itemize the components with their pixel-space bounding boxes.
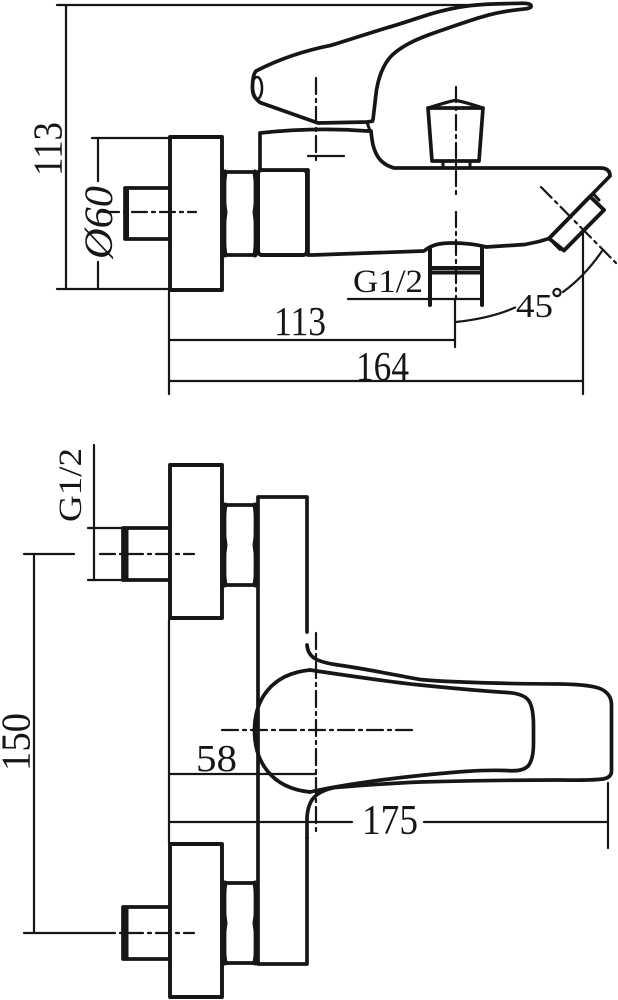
extension line fitting bottom center [24, 932, 100, 934]
leader line G1/2 (front view) [93, 445, 95, 580]
hex nut (top view) [223, 172, 257, 255]
wall flange escutcheon (top view) [170, 137, 222, 290]
handle silhouette (front view) [307, 645, 612, 838]
extension line fitting top center [24, 553, 74, 555]
centerline nipple (top view) [104, 211, 196, 213]
handle lever (top view) [253, 3, 532, 123]
svg-text:175: 175 [362, 798, 418, 844]
handle top surface contour (front view) [255, 670, 311, 792]
dim line 113 horizontal [170, 339, 454, 341]
shower fitting centerline [455, 212, 457, 299]
extension line handle end (front view) [607, 783, 609, 848]
faucet body bar (front view) [258, 497, 307, 964]
dim line 164 [170, 380, 582, 382]
handle pivot cap [252, 77, 262, 99]
nozzle ring notches [554, 194, 599, 250]
extension line flange top for dia60 [92, 137, 168, 139]
cap step under handle [367, 122, 370, 131]
svg-text:58: 58 [196, 738, 237, 780]
eccentric connector (top view) [258, 170, 307, 255]
cartridge axis tick [308, 155, 344, 157]
svg-text:113: 113 [274, 298, 326, 344]
dim line 58 [170, 773, 316, 775]
diverter knob neck [443, 161, 470, 168]
faucet body with spout (top view) [260, 129, 610, 255]
wall flange bottom (front view) [170, 844, 222, 997]
centerline fitting bottom [100, 932, 194, 934]
extension line shower outlet center [454, 300, 456, 347]
svg-text:150: 150 [0, 713, 39, 771]
dim line 175 (broken by text) [170, 821, 352, 823]
handle top surface inner line (front view) [310, 670, 534, 792]
shower outlet fitting G1/2 (top view) [430, 248, 482, 305]
extension line wall plane (top view dims) [168, 291, 170, 394]
svg-text:113: 113 [25, 122, 71, 176]
dim line 113 vertical [65, 6, 67, 288]
wall supply nipple (top view) [125, 188, 170, 239]
extension line wall plane (front view dims) [168, 620, 170, 843]
svg-text:Ø60: Ø60 [76, 186, 121, 260]
svg-text:45: 45 [516, 288, 553, 325]
centerline handle axis (front view) [315, 633, 317, 833]
leader underline G1/2 [348, 298, 482, 300]
wall flange top (front view) [170, 465, 222, 618]
degree mark [553, 289, 560, 296]
centerline fitting top [100, 553, 194, 555]
cartridge axis centerline (top view) [315, 78, 317, 160]
extension lines supply fitting (front view) [88, 527, 122, 529]
extension line nozzle center [582, 231, 584, 394]
supply fitting top (front view) [123, 528, 170, 580]
svg-text:G1/2: G1/2 [353, 264, 423, 300]
svg-text:G1/2: G1/2 [53, 448, 89, 522]
nozzle axis centerline 45 deg [541, 187, 616, 263]
diverter knob dome [428, 101, 483, 109]
hex nut top (front view) [223, 505, 257, 585]
hex nut bottom (front view) [223, 883, 257, 963]
spout nozzle at 45 deg [549, 197, 604, 251]
dim line 150 vertical [33, 555, 35, 932]
svg-text:164: 164 [356, 343, 409, 389]
extension line bottom (flange bottom level) [57, 288, 170, 290]
dim line dia60 vertical (broken by text) [97, 139, 99, 181]
diverter knob (top view) [428, 108, 483, 161]
45 deg dimension arc [456, 308, 515, 323]
centerline horizontal (front view) [222, 729, 415, 731]
supply fitting bottom (front view) [123, 907, 170, 959]
diverter axis centerline [455, 87, 457, 199]
extension line top (handle top level) [57, 4, 505, 6]
